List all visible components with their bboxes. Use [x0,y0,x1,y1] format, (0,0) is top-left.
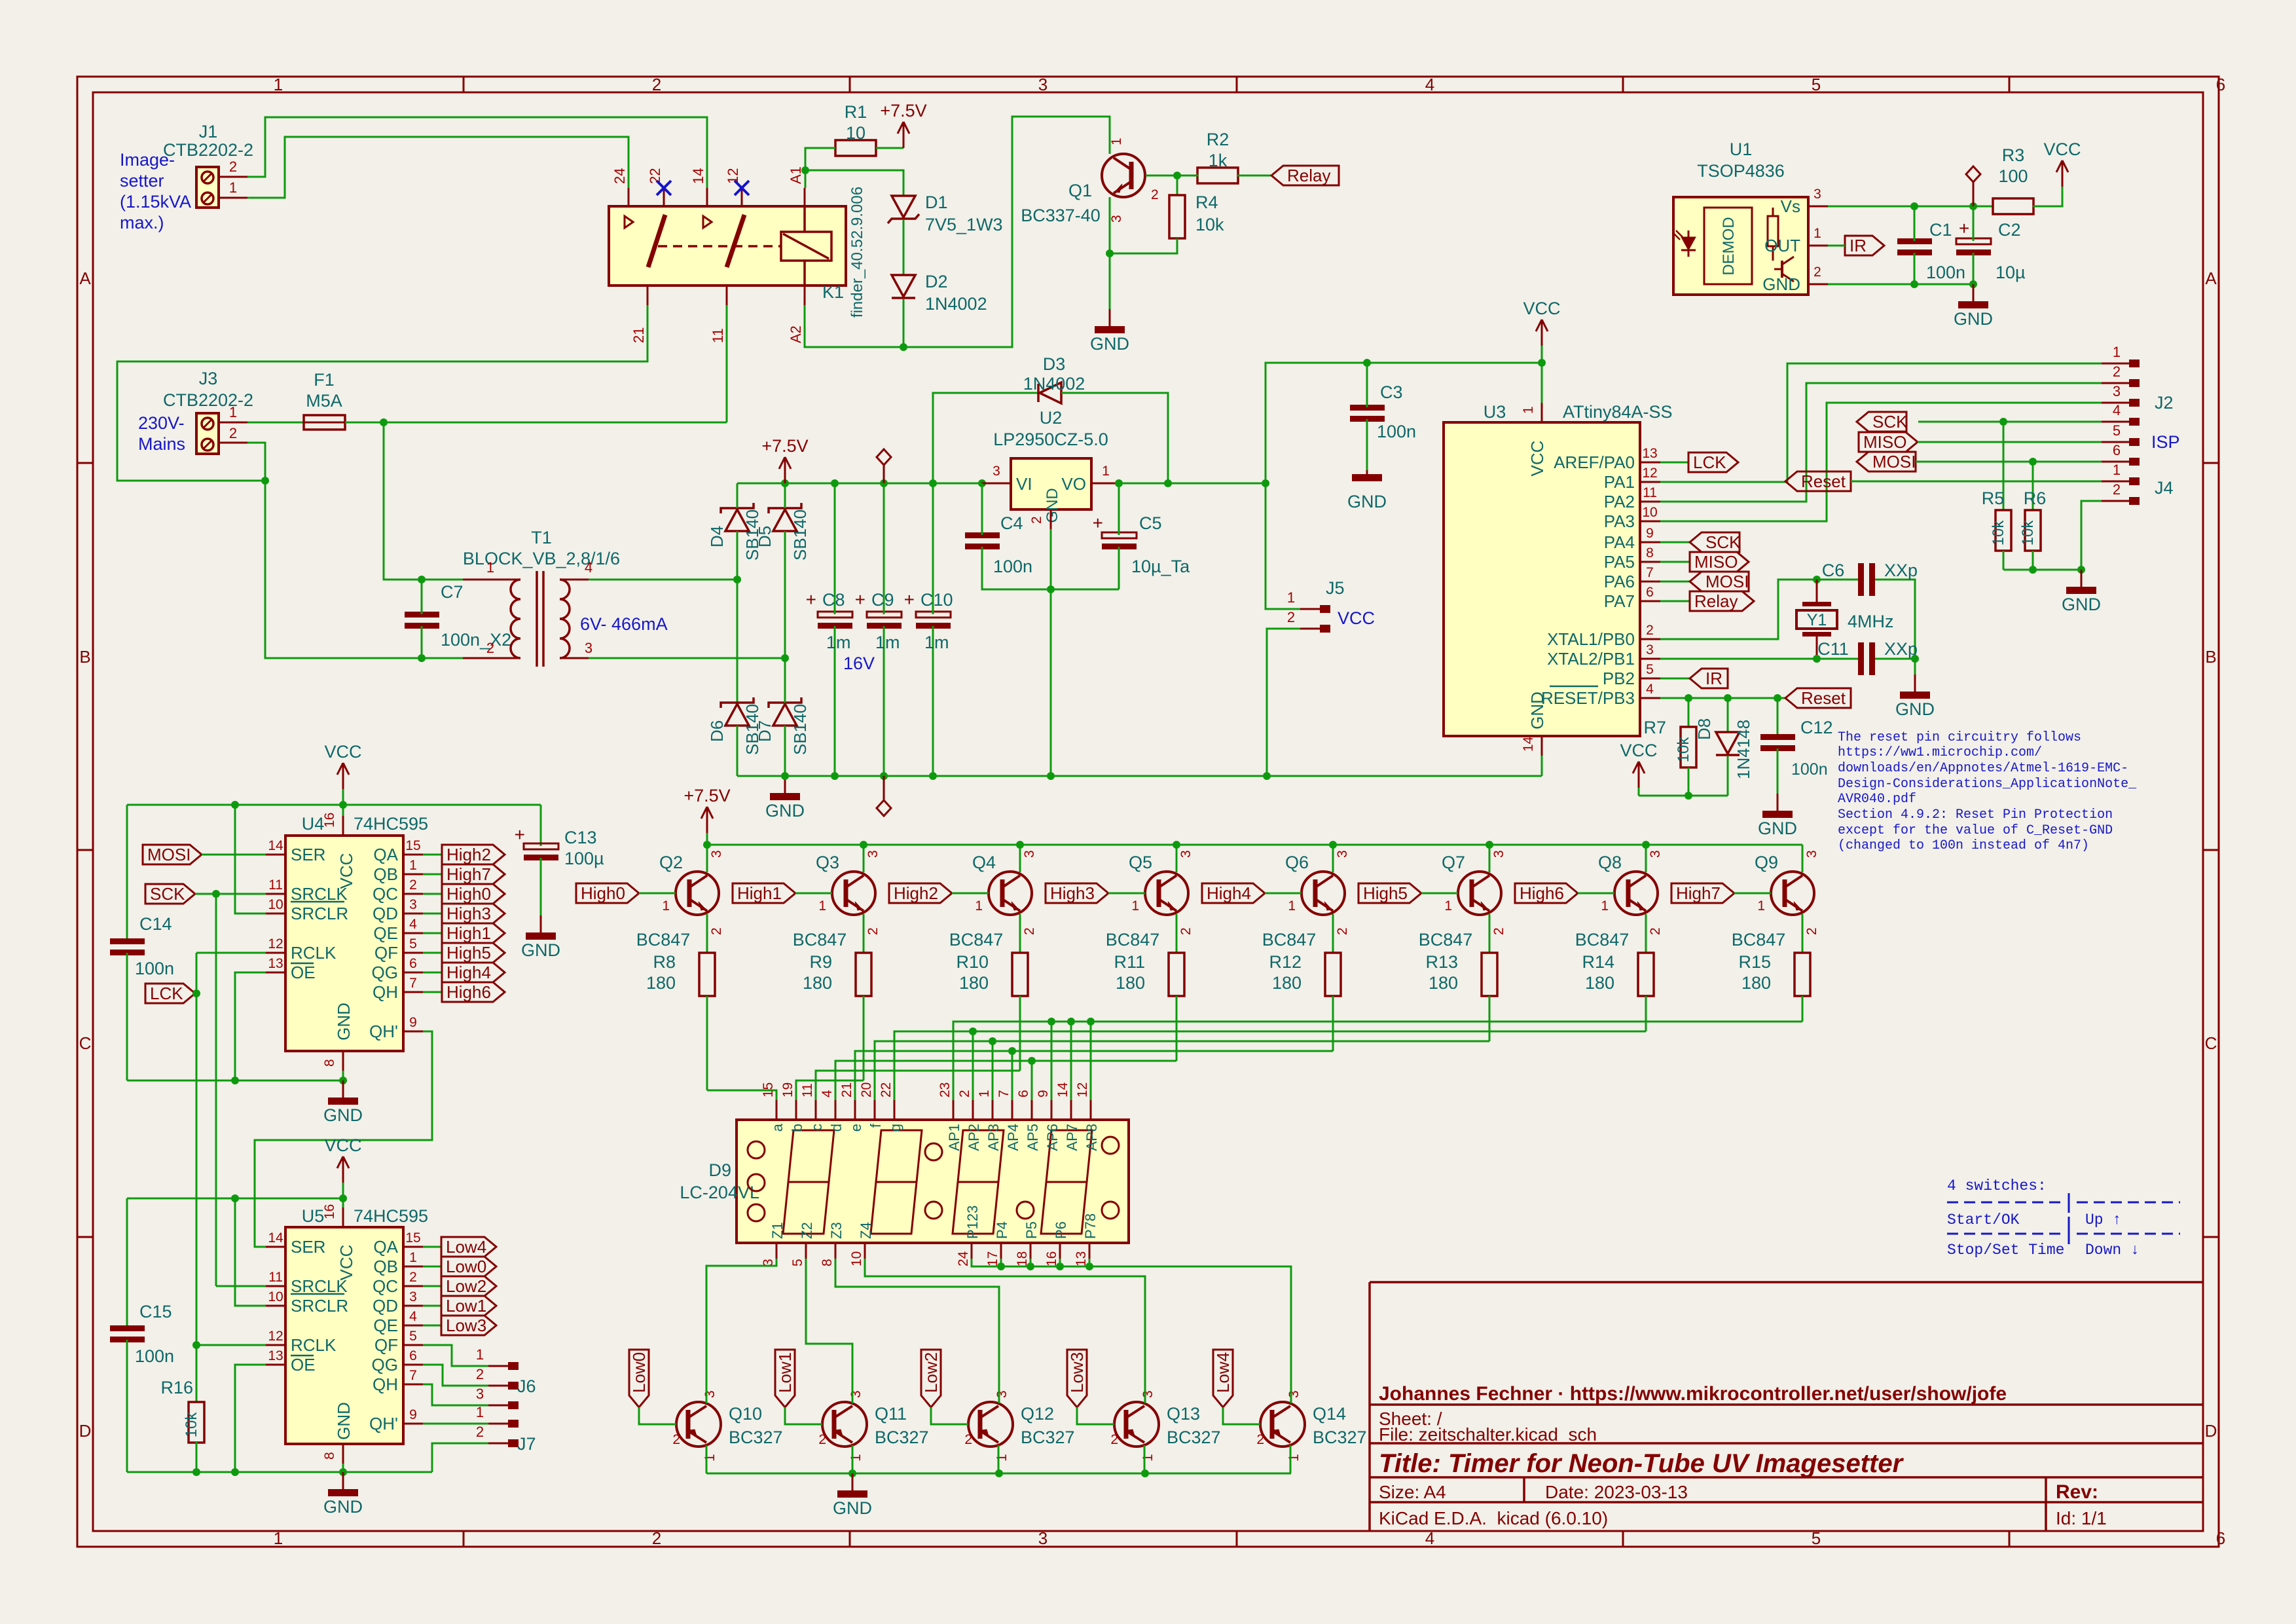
svg-text:M5A: M5A [306,391,342,411]
svg-text:Q14: Q14 [1313,1404,1346,1424]
svg-text:2: 2 [1646,623,1654,638]
svg-text:11: 11 [710,328,726,343]
svg-text:3: 3 [702,1390,718,1398]
resistor R2 1k [1197,168,1238,183]
svg-text:22: 22 [647,168,663,184]
U4 pin8 GND [342,1051,344,1071]
global label High1 [442,923,505,943]
svg-text:12: 12 [268,936,283,951]
wire VCC to SRCLR U5 [235,1198,266,1306]
+7.5V rail for drivers [707,844,1802,846]
wire PA3 to J2 pin3 [1660,403,2102,521]
svg-text:Johannes Fechner · https://www: Johannes Fechner · https://www.mikrocont… [1379,1383,2007,1405]
svg-text:+7.5V: +7.5V [683,786,730,805]
svg-text:1: 1 [1109,138,1124,145]
svg-text:TSOP4836: TSOP4836 [1697,161,1785,181]
svg-text:AP4: AP4 [1005,1124,1021,1151]
svg-text:4: 4 [409,917,417,932]
svg-text:Q4: Q4 [972,853,996,872]
svg-text:VCC: VCC [1338,608,1375,628]
svg-text:16: 16 [322,1204,337,1219]
svg-text:180: 180 [646,973,676,993]
U4 pin16 VCC [342,816,344,836]
svg-text:3: 3 [1022,850,1037,858]
wire emitter Q2 to R8 [706,914,708,953]
svg-text:1: 1 [848,1454,864,1462]
wire collector Q4 [1019,845,1021,872]
crystal circuit wires XTAL2 [1660,658,1859,660]
global label High5 at Q7 [1358,883,1421,903]
wire MOSI row to J2 pin6 [1916,461,2102,463]
svg-text:1: 1 [1131,898,1139,913]
capacitor C5 10u_Ta [1102,532,1137,538]
wire base Q5 [1108,893,1145,895]
capacitor C4 100n [965,532,1000,538]
svg-text:5: 5 [1646,662,1654,677]
svg-text:Q9: Q9 [1755,853,1778,872]
svg-text:Relay: Relay [1694,591,1738,611]
svg-text:MISO: MISO [1863,432,1906,452]
wire emitter Q11 [852,1445,854,1473]
svg-text:High2: High2 [894,883,938,903]
svg-text:1: 1 [1102,464,1110,479]
svg-text:10: 10 [849,1251,864,1266]
svg-text:16: 16 [322,813,337,828]
svg-text:12: 12 [268,1329,283,1344]
svg-text:PA5: PA5 [1604,552,1635,572]
svg-text:100n: 100n [993,557,1032,576]
capacitor C14 100n [126,805,128,941]
wire R13 to display net [1489,996,1491,1041]
svg-text:U5: U5 [302,1206,325,1226]
svg-text:1: 1 [476,1404,484,1420]
svg-text:GND: GND [1758,819,1797,838]
wire GND rail [737,775,1542,777]
transistor Q3 BC847 [832,872,875,915]
wire LCK net to U5 RCLK [196,1344,266,1346]
svg-text:C4: C4 [1000,513,1023,533]
svg-text:4: 4 [409,1309,417,1324]
VCC rail above U4 [127,804,541,806]
power flag below GND rail [883,776,885,800]
svg-text:100n_X2: 100n_X2 [441,630,511,650]
global label SCK at U4 [145,884,195,904]
svg-text:U2: U2 [1040,408,1063,428]
svg-text:15: 15 [405,838,420,853]
schottky D5 SB140 [769,503,801,513]
wire emitter Q7 to R13 [1489,914,1491,953]
svg-text:QE: QE [373,1316,398,1335]
IC U3 ATtiny84A-SS [1444,422,1640,736]
svg-text:Id: 1/1: Id: 1/1 [2056,1508,2107,1528]
svg-text:KiCad E.D.A. kicad (6.0.10): KiCad E.D.A. kicad (6.0.10) [1379,1508,1608,1528]
wire U1 GND row [1828,284,1973,286]
svg-text:74HC595: 74HC595 [354,1206,428,1226]
svg-text:(1.15kVA: (1.15kVA [120,192,191,212]
wire U2 GND down [1050,529,1052,776]
svg-text:1: 1 [994,1454,1010,1462]
U1 internal resistor [1768,216,1778,246]
U5 pin8 GND [342,1444,344,1464]
svg-text:J2: J2 [2155,393,2174,413]
svg-text:R5: R5 [1982,489,2005,508]
connector J4 [2102,481,2129,483]
svg-text:3: 3 [1109,215,1124,223]
svg-text:3: 3 [1178,850,1194,858]
svg-text:2: 2 [957,1090,972,1098]
svg-text:6: 6 [409,956,417,971]
resistor R8 180 [699,953,715,996]
svg-text:10: 10 [1642,505,1657,520]
svg-text:4: 4 [820,1090,835,1098]
resistor R15 180 [1795,953,1810,996]
transistor Q1 BC337-40 [1102,154,1145,197]
U3 right pins [1640,462,1660,464]
crystal Y1 4MHz [1816,580,1818,602]
svg-text:LP2950CZ-5.0: LP2950CZ-5.0 [993,430,1108,449]
svg-text:Q12: Q12 [1021,1404,1054,1424]
svg-text:Vs: Vs [1781,196,1800,216]
svg-text:6: 6 [2113,442,2121,458]
global label High2 [442,845,505,864]
svg-text:3: 3 [1804,850,1819,858]
power VCC at U5 [342,1183,344,1198]
svg-text:2: 2 [1256,1432,1264,1447]
ground below R5 R6 [2081,570,2083,587]
svg-text:1m: 1m [875,633,900,652]
svg-text:High0: High0 [581,883,625,903]
wire U5 QH' to J7 pin1 [423,1423,488,1425]
svg-text:MOSI: MOSI [1705,572,1749,591]
svg-text:10: 10 [268,1289,283,1304]
svg-text:SRCLR: SRCLR [291,1296,348,1316]
wire R3 to VCC [2033,187,2062,206]
svg-text:IR: IR [1850,236,1867,255]
svg-text:7: 7 [409,1368,417,1383]
svg-text:100n: 100n [135,1346,174,1366]
svg-text:8: 8 [820,1259,835,1266]
transistor Q10 BC327 [676,1402,721,1447]
svg-text:R12: R12 [1269,952,1302,972]
svg-text:QC: QC [373,1276,398,1296]
svg-text:1: 1 [1287,589,1295,606]
svg-text:15: 15 [761,1082,776,1098]
wire base Q12 [931,1407,968,1424]
resistor R6 10k [2032,462,2034,510]
svg-text:180: 180 [959,973,989,993]
svg-text:XTAL2/PB1: XTAL2/PB1 [1547,649,1635,669]
U1 internal transistor [1781,261,1783,278]
svg-text:J5: J5 [1326,578,1345,598]
svg-text:RESET/PB3: RESET/PB3 [1541,688,1635,708]
svg-text:QC: QC [373,884,398,904]
svg-text:1: 1 [2113,462,2121,478]
svg-text:P4: P4 [994,1221,1010,1239]
svg-text:Mains: Mains [138,434,185,454]
svg-text:PA4: PA4 [1604,532,1635,552]
global label Reset near J2 [1785,471,1851,491]
svg-text:2: 2 [2113,363,2121,380]
capacitor C6 XXp [1858,563,1864,596]
regulator U2 LP2950CZ-5.0 [1011,458,1091,509]
svg-text:10k: 10k [2019,520,2037,546]
svg-text:BC327: BC327 [1021,1428,1075,1447]
global label MOSI near J2 [1857,452,1916,471]
svg-text:11: 11 [1643,485,1657,500]
resistor R12 180 [1325,953,1341,996]
wire U5 QG to J6 pin2 [423,1365,488,1386]
transistor Q2 BC847 [676,872,719,915]
svg-text:3: 3 [848,1390,864,1398]
GND rail below U5 [127,1471,432,1473]
svg-text:GND: GND [2062,595,2101,614]
no-connect X pin12 [735,181,749,195]
svg-text:High7: High7 [1676,883,1721,903]
global label SCK near J2 [1857,412,1906,432]
svg-text:1: 1 [409,1250,417,1265]
connector J7 [488,1423,508,1425]
connector J2 [2102,363,2129,365]
global label High0 [442,884,505,904]
svg-text:Image-: Image- [120,150,175,170]
svg-text:U1: U1 [1730,139,1753,159]
svg-text:Title: Timer for Neon-Tube UV: Title: Timer for Neon-Tube UV Imagesette… [1379,1449,1904,1478]
svg-text:5: 5 [409,1329,417,1344]
U4 output labels High [423,854,442,856]
ground below Q11 [852,1473,854,1490]
svg-text:Relay: Relay [1287,166,1330,185]
wire PA1 to J2 pin1 [1660,363,2102,482]
svg-text:f: f [867,1123,884,1128]
svg-text:2: 2 [1178,927,1194,935]
svg-text:BC847: BC847 [1732,930,1786,950]
svg-text:4: 4 [1425,1528,1434,1548]
capacitor C12 100n [1777,698,1779,737]
svg-text:GND: GND [334,1402,354,1440]
svg-text:Q13: Q13 [1167,1404,1200,1424]
svg-text:1: 1 [702,1454,718,1462]
wire J3 pin2 down to T1 pin2 [247,443,463,658]
svg-text:File: zeitschalter.kicad_sch: File: zeitschalter.kicad_sch [1379,1424,1597,1445]
global label Relay at Q1 [1271,166,1339,185]
svg-text:1: 1 [274,1528,283,1548]
svg-text:High1: High1 [446,923,491,943]
svg-text:J1: J1 [199,122,218,141]
relay pins top [628,188,630,206]
svg-text:Start/OK: Start/OK [1947,1211,2020,1228]
wire VCC to SRCLR U4 [235,805,266,913]
svg-text:A: A [79,268,91,288]
svg-text:+: + [1959,218,1969,238]
svg-text:XXp: XXp [1884,639,1918,659]
svg-text:2: 2 [1648,927,1663,935]
power VCC at R3 [2062,160,2064,187]
svg-text:2: 2 [409,1270,417,1285]
svg-text:4: 4 [1646,682,1654,697]
svg-text:100n: 100n [1926,263,1965,282]
svg-text:1m: 1m [924,633,949,652]
svg-text:2: 2 [964,1432,972,1447]
svg-text:1m: 1m [826,633,851,652]
U1 pin GND [1808,284,1828,286]
ground below Q1 [1109,309,1111,326]
svg-text:D6: D6 [707,720,727,742]
svg-text:BC847: BC847 [949,930,1004,950]
svg-text:D1: D1 [925,193,948,212]
svg-text:AP7: AP7 [1064,1124,1080,1151]
svg-text:2: 2 [1813,265,1821,280]
svg-text:C7: C7 [441,582,464,602]
svg-text:1: 1 [818,898,826,913]
svg-text:b: b [789,1124,805,1132]
svg-text:1: 1 [1288,898,1296,913]
svg-text:C: C [2205,1033,2217,1053]
svg-text:C10: C10 [920,590,953,610]
svg-text:11: 11 [800,1083,815,1098]
global label MOSI at PA6 [1660,581,1690,583]
svg-text:Q3: Q3 [816,853,839,872]
svg-text:OE: OE [291,1355,316,1375]
svg-text:BC327: BC327 [729,1428,783,1447]
global label Low2 at Q12 [921,1350,941,1407]
svg-text:13: 13 [1642,446,1657,461]
svg-text:AP5: AP5 [1025,1124,1041,1151]
capacitor C9 1m [867,612,902,618]
svg-text:https://ww1.microchip.com/: https://ww1.microchip.com/ [1838,745,2042,760]
svg-text:R3: R3 [2002,145,2025,165]
svg-text:21: 21 [839,1082,854,1098]
svg-text:Low2: Low2 [921,1352,941,1393]
wire VO rail [1121,483,1266,485]
svg-text:U4: U4 [302,814,325,834]
svg-text:6: 6 [1016,1090,1031,1098]
wire emitter Q4 to R10 [1019,914,1021,953]
svg-text:SRCLR: SRCLR [291,904,348,923]
svg-text:P5: P5 [1023,1221,1040,1239]
global label Low1 [441,1296,496,1316]
svg-text:e: e [848,1124,864,1132]
svg-text:VO: VO [1061,474,1086,494]
svg-text:Z1: Z1 [769,1222,786,1239]
wire U5 QF to J6 pin1 [423,1345,488,1366]
global label Low0 [441,1257,496,1276]
anode tie AP3 [992,1041,994,1100]
wire J7 pin2 to GND [432,1443,488,1472]
svg-text:9: 9 [409,1015,417,1030]
global label High5 [442,943,505,963]
global label Low3 at Q13 [1067,1350,1087,1407]
svg-text:GND: GND [521,940,560,960]
svg-text:C: C [79,1033,92,1053]
svg-text:230V-: 230V- [138,413,185,433]
segment net row c [816,1071,1020,1100]
wire emitter Q10 [706,1445,708,1473]
svg-text:3: 3 [476,1386,484,1402]
wire collector Q9 [1802,845,1804,872]
svg-text:SER: SER [291,845,325,864]
svg-text:2: 2 [1491,927,1506,935]
IC U5 74HC595 [285,1227,403,1444]
svg-text:2: 2 [1335,927,1350,935]
svg-text:R16: R16 [160,1378,193,1397]
segment net row e [855,1051,1333,1100]
global label SCK at PA4 [1660,542,1690,544]
wire base Q14 [1223,1407,1260,1424]
svg-text:Date: 2023-03-13: Date: 2023-03-13 [1545,1482,1688,1502]
wire emitter Q12 [998,1445,1000,1473]
wire emitter Q8 to R14 [1645,914,1647,953]
svg-text:24: 24 [611,168,628,184]
svg-text:OE: OE [291,963,316,982]
svg-text:19: 19 [780,1082,795,1098]
svg-text:BC847: BC847 [1106,930,1160,950]
U4 right pins [403,854,423,856]
svg-text:GND: GND [323,1497,363,1517]
power +7.5V at R1 [903,122,905,148]
svg-text:PB2: PB2 [1603,669,1635,688]
svg-text:c: c [809,1124,825,1131]
svg-text:3: 3 [1038,75,1048,94]
svg-text:AVR040.pdf: AVR040.pdf [1838,792,1916,807]
U5 left pins [266,1246,285,1248]
svg-text:J3: J3 [199,369,218,388]
svg-text:R13: R13 [1425,952,1458,972]
global label Relay at PA7 [1660,600,1690,602]
svg-text:C1: C1 [1929,220,1952,240]
svg-text:GND: GND [833,1498,872,1518]
svg-text:+: + [515,824,525,845]
svg-text:T1: T1 [531,528,552,547]
svg-text:Z4: Z4 [858,1222,874,1239]
svg-text:1: 1 [229,179,237,196]
resistor R4 10k [1176,175,1178,195]
svg-text:14: 14 [268,838,283,853]
wire R1 right to +7.5V [876,147,903,149]
svg-text:Reset: Reset [1801,471,1846,491]
svg-text:AP6: AP6 [1044,1124,1061,1151]
svg-text:2: 2 [709,927,724,935]
power VCC at U4 [342,789,344,805]
svg-text:2: 2 [1022,927,1037,935]
transistor Q9 BC847 [1771,872,1814,915]
segment net row f [875,1041,1489,1100]
svg-text:3: 3 [409,1289,417,1304]
svg-text:g: g [887,1124,903,1132]
svg-text:AP3: AP3 [985,1124,1002,1151]
svg-text:BC847: BC847 [636,930,691,950]
svg-text:High4: High4 [1207,883,1251,903]
svg-text:R14: R14 [1582,952,1614,972]
svg-text:IR: IR [1705,669,1722,688]
svg-text:7: 7 [996,1090,1011,1098]
svg-text:1: 1 [2113,344,2121,360]
svg-text:11: 11 [268,1270,283,1285]
svg-text:J6: J6 [517,1376,536,1396]
svg-text:1: 1 [1444,898,1452,913]
svg-text:10: 10 [268,897,283,912]
svg-text:C14: C14 [139,914,172,934]
svg-text:LCK: LCK [150,984,183,1003]
wire base Q7 [1421,893,1458,895]
svg-text:VI: VI [1016,474,1032,494]
transistor Q8 BC847 [1614,872,1658,915]
svg-text:SRCLK: SRCLK [291,884,348,904]
svg-text:R6: R6 [2024,489,2047,508]
wire emitter Q6 to R12 [1332,914,1334,953]
global label High7 [442,864,505,884]
svg-text:10k: 10k [1990,520,2007,546]
svg-text:3: 3 [866,850,881,858]
